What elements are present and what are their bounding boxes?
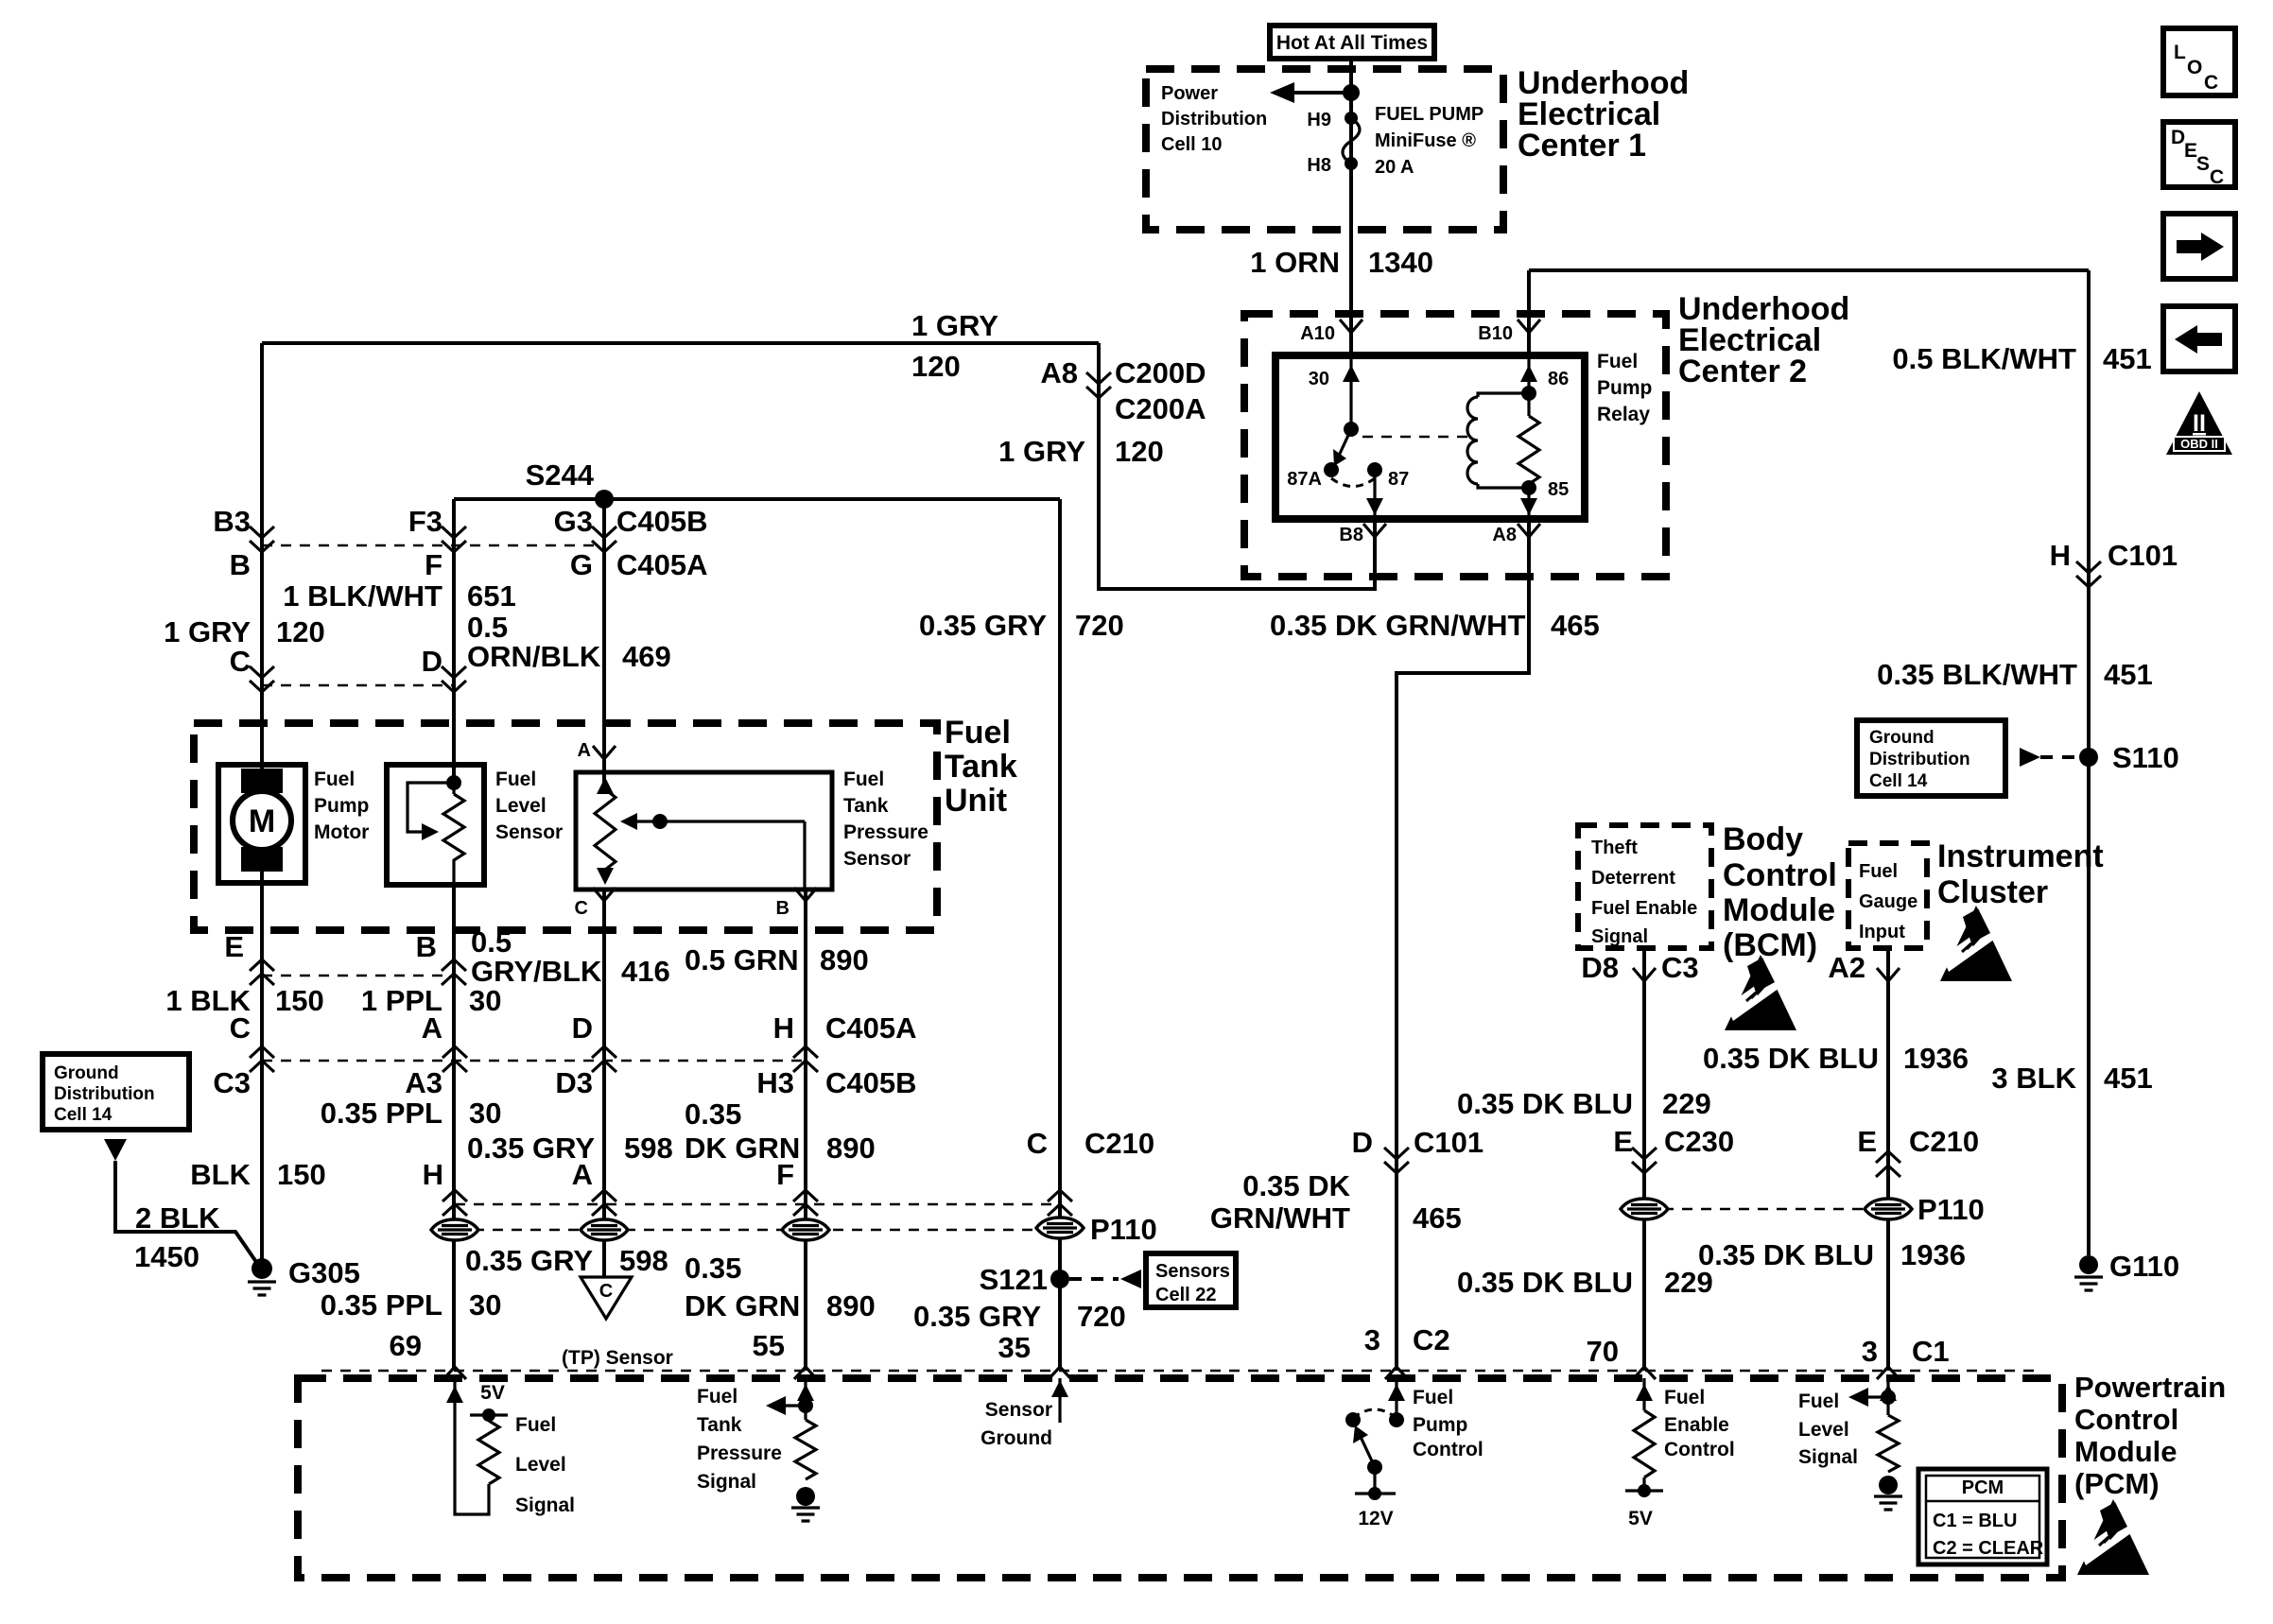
svg-text:Tank: Tank	[945, 749, 1017, 785]
svg-text:ORN/BLK: ORN/BLK	[467, 640, 601, 673]
svg-text:0.35 BLK/WHT: 0.35 BLK/WHT	[1877, 658, 2077, 691]
svg-text:0.35 DK BLU: 0.35 DK BLU	[1457, 1087, 1633, 1120]
svg-text:69: 69	[390, 1329, 422, 1362]
svg-text:H: H	[2050, 539, 2071, 572]
svg-text:G305: G305	[288, 1256, 360, 1289]
svg-text:Pressure: Pressure	[697, 1443, 782, 1464]
svg-text:L: L	[2174, 42, 2186, 63]
svg-text:Fuel: Fuel	[1859, 861, 1898, 882]
svg-text:C3: C3	[1661, 951, 1699, 984]
svg-text:A3: A3	[405, 1066, 442, 1099]
svg-text:5V: 5V	[480, 1382, 505, 1404]
svg-text:Powertrain: Powertrain	[2074, 1371, 2226, 1404]
svg-text:A: A	[572, 1158, 593, 1191]
svg-text:C1 = BLU: C1 = BLU	[1933, 1511, 2017, 1531]
svg-text:890: 890	[826, 1289, 876, 1322]
svg-text:0.35: 0.35	[685, 1252, 741, 1285]
svg-text:D: D	[2171, 127, 2185, 148]
svg-text:C: C	[230, 645, 251, 678]
svg-text:Hot At All Times: Hot At All Times	[1276, 32, 1428, 54]
svg-text:D: D	[422, 645, 442, 678]
svg-text:0.5: 0.5	[467, 611, 508, 644]
svg-text:Distribution: Distribution	[1869, 750, 1970, 769]
svg-text:720: 720	[1075, 609, 1124, 642]
svg-text:3: 3	[1862, 1335, 1878, 1368]
svg-text:C405A: C405A	[825, 1011, 917, 1045]
svg-text:FUEL PUMP: FUEL PUMP	[1375, 104, 1484, 125]
svg-text:120: 120	[276, 615, 325, 648]
svg-text:451: 451	[2104, 658, 2153, 691]
svg-text:Ground: Ground	[980, 1427, 1052, 1449]
svg-text:Input: Input	[1859, 922, 1905, 942]
svg-text:S110: S110	[2112, 741, 2179, 774]
svg-text:1 GRY: 1 GRY	[164, 615, 251, 648]
svg-text:Power: Power	[1161, 83, 1218, 104]
svg-text:0.35: 0.35	[685, 1097, 741, 1131]
svg-text:C101: C101	[1414, 1126, 1484, 1159]
svg-text:O: O	[2187, 57, 2202, 78]
svg-text:Theft: Theft	[1591, 838, 1638, 858]
svg-text:B8: B8	[1339, 525, 1363, 545]
svg-text:Sensor: Sensor	[843, 848, 911, 870]
svg-text:Pump: Pump	[1597, 377, 1652, 399]
svg-text:Pump: Pump	[314, 795, 369, 817]
svg-text:C: C	[575, 898, 588, 919]
svg-text:0.35 PPL: 0.35 PPL	[321, 1097, 442, 1130]
svg-text:0.35 DK BLU: 0.35 DK BLU	[1703, 1042, 1879, 1075]
svg-text:Tank: Tank	[697, 1414, 742, 1436]
svg-text:C210: C210	[1909, 1125, 1979, 1158]
svg-text:C: C	[599, 1281, 613, 1302]
svg-text:30: 30	[469, 1097, 501, 1130]
svg-text:Fuel: Fuel	[1664, 1387, 1705, 1408]
svg-text:E: E	[2184, 140, 2197, 162]
svg-text:598: 598	[619, 1244, 668, 1277]
svg-text:0.35 DK: 0.35 DK	[1242, 1169, 1350, 1202]
svg-text:Module: Module	[1723, 892, 1835, 928]
svg-text:Distribution: Distribution	[54, 1084, 155, 1104]
svg-text:150: 150	[275, 984, 324, 1017]
svg-text:C405B: C405B	[616, 505, 708, 538]
svg-text:C405B: C405B	[825, 1066, 917, 1099]
svg-text:MiniFuse ®: MiniFuse ®	[1375, 130, 1476, 151]
svg-text:Module: Module	[2074, 1435, 2178, 1468]
svg-text:55: 55	[753, 1329, 785, 1362]
svg-text:A: A	[422, 1011, 442, 1045]
svg-text:Fuel: Fuel	[1413, 1387, 1453, 1408]
svg-text:D: D	[1352, 1126, 1373, 1159]
svg-text:Cell 10: Cell 10	[1161, 134, 1222, 155]
svg-text:Signal: Signal	[697, 1471, 756, 1493]
svg-text:E: E	[224, 930, 244, 963]
svg-text:H: H	[773, 1011, 794, 1045]
svg-text:0.5 BLK/WHT: 0.5 BLK/WHT	[1892, 342, 2076, 375]
svg-text:C230: C230	[1664, 1125, 1734, 1158]
svg-text:Fuel Enable: Fuel Enable	[1591, 898, 1697, 919]
svg-text:Cell 14: Cell 14	[1869, 771, 1928, 791]
svg-text:H: H	[423, 1158, 443, 1191]
svg-text:D3: D3	[555, 1066, 593, 1099]
svg-text:86: 86	[1548, 369, 1569, 389]
svg-text:1936: 1936	[1900, 1238, 1966, 1271]
svg-text:451: 451	[2103, 342, 2152, 375]
svg-text:Instrument: Instrument	[1937, 838, 2104, 874]
svg-text:0.35 DK BLU: 0.35 DK BLU	[1698, 1238, 1874, 1271]
svg-text:3: 3	[1364, 1323, 1380, 1356]
svg-text:87A: 87A	[1287, 469, 1322, 490]
svg-text:Level: Level	[1798, 1419, 1849, 1441]
svg-text:C1: C1	[1912, 1335, 1950, 1368]
svg-text:0.35 GRY: 0.35 GRY	[465, 1244, 593, 1277]
svg-text:Sensors: Sensors	[1155, 1261, 1230, 1282]
svg-text:H9: H9	[1307, 110, 1331, 130]
svg-text:Control: Control	[2074, 1403, 2178, 1436]
svg-text:C101: C101	[2108, 539, 2178, 572]
svg-text:Body: Body	[1723, 821, 1803, 857]
svg-text:0.35 GRY: 0.35 GRY	[913, 1300, 1041, 1333]
svg-text:Level: Level	[515, 1454, 566, 1476]
svg-text:BLK: BLK	[190, 1158, 251, 1191]
svg-text:A2: A2	[1828, 951, 1865, 984]
svg-text:469: 469	[622, 640, 671, 673]
svg-text:416: 416	[621, 955, 670, 988]
svg-text:(TP) Sensor: (TP) Sensor	[562, 1347, 673, 1369]
svg-text:1340: 1340	[1368, 246, 1433, 279]
svg-text:C3: C3	[213, 1066, 251, 1099]
svg-text:120: 120	[1115, 435, 1164, 468]
svg-text:Gauge: Gauge	[1859, 891, 1917, 912]
svg-text:II: II	[2193, 410, 2206, 437]
svg-text:C: C	[2210, 166, 2224, 188]
svg-text:Center 1: Center 1	[1518, 128, 1646, 164]
svg-text:GRN/WHT: GRN/WHT	[1210, 1201, 1350, 1235]
svg-text:A: A	[578, 740, 591, 761]
svg-text:0.5: 0.5	[471, 925, 512, 959]
svg-text:GRY/BLK: GRY/BLK	[471, 955, 602, 988]
svg-text:30: 30	[469, 984, 501, 1017]
svg-text:465: 465	[1551, 609, 1600, 642]
svg-text:C: C	[1027, 1127, 1048, 1160]
svg-text:D8: D8	[1581, 951, 1619, 984]
svg-text:A8: A8	[1040, 356, 1078, 389]
svg-text:B: B	[230, 548, 251, 581]
svg-text:C: C	[230, 1011, 251, 1045]
svg-text:150: 150	[277, 1158, 326, 1191]
svg-text:Cluster: Cluster	[1937, 874, 2048, 910]
svg-text:H8: H8	[1307, 155, 1331, 176]
svg-text:S: S	[2196, 153, 2210, 175]
svg-text:Fuel: Fuel	[843, 769, 884, 790]
svg-text:35: 35	[998, 1331, 1031, 1364]
svg-text:Motor: Motor	[314, 821, 369, 843]
svg-text:87: 87	[1388, 469, 1409, 490]
svg-text:Signal: Signal	[1798, 1446, 1858, 1468]
svg-text:Fuel: Fuel	[697, 1386, 737, 1408]
svg-text:Level: Level	[495, 795, 547, 817]
svg-text:70: 70	[1587, 1335, 1619, 1368]
svg-text:651: 651	[467, 579, 516, 613]
svg-text:Fuel: Fuel	[515, 1414, 556, 1436]
svg-text:Control: Control	[1413, 1439, 1484, 1460]
svg-text:E: E	[1857, 1125, 1877, 1158]
svg-text:5V: 5V	[1628, 1508, 1653, 1529]
svg-text:S121: S121	[980, 1263, 1048, 1296]
svg-text:890: 890	[826, 1132, 876, 1165]
svg-text:20 A: 20 A	[1375, 157, 1414, 178]
svg-text:DK GRN: DK GRN	[685, 1289, 800, 1322]
svg-text:Signal: Signal	[1591, 926, 1648, 947]
svg-text:Ground: Ground	[1869, 728, 1935, 748]
svg-text:C2 = CLEAR: C2 = CLEAR	[1933, 1538, 2044, 1559]
svg-text:Fuel: Fuel	[1798, 1391, 1839, 1412]
svg-text:Cell 22: Cell 22	[1155, 1285, 1216, 1305]
svg-text:Fuel: Fuel	[945, 715, 1011, 751]
svg-text:229: 229	[1662, 1087, 1711, 1120]
svg-text:B3: B3	[213, 505, 251, 538]
svg-text:A8: A8	[1492, 525, 1517, 545]
svg-text:H3: H3	[756, 1066, 794, 1099]
svg-text:S244: S244	[526, 458, 595, 492]
svg-text:D: D	[572, 1011, 593, 1045]
svg-text:451: 451	[2104, 1062, 2153, 1095]
svg-text:G3: G3	[554, 505, 593, 538]
svg-text:P110: P110	[1090, 1213, 1157, 1246]
svg-text:Cell 14: Cell 14	[54, 1105, 113, 1125]
svg-text:598: 598	[624, 1132, 673, 1165]
svg-text:F: F	[776, 1158, 794, 1191]
svg-text:C210: C210	[1084, 1127, 1154, 1160]
svg-text:C200A: C200A	[1115, 392, 1206, 425]
svg-text:Center 2: Center 2	[1678, 354, 1807, 389]
svg-text:85: 85	[1548, 479, 1569, 500]
svg-text:Fuel: Fuel	[495, 769, 536, 790]
svg-text:0.35 DK BLU: 0.35 DK BLU	[1457, 1266, 1633, 1299]
svg-text:Sensor: Sensor	[985, 1399, 1052, 1421]
svg-text:0.35 GRY: 0.35 GRY	[919, 609, 1047, 642]
svg-text:F: F	[425, 548, 442, 581]
svg-text:1 GRY: 1 GRY	[911, 309, 998, 342]
svg-text:0.35 DK GRN/WHT: 0.35 DK GRN/WHT	[1270, 609, 1525, 642]
svg-text:Pump: Pump	[1413, 1414, 1467, 1436]
svg-text:Sensor: Sensor	[495, 821, 563, 843]
svg-text:Signal: Signal	[515, 1494, 575, 1516]
svg-text:C: C	[2204, 72, 2218, 94]
svg-text:1 BLK/WHT: 1 BLK/WHT	[283, 579, 442, 613]
svg-text:C200D: C200D	[1115, 356, 1206, 389]
svg-text:A10: A10	[1300, 323, 1335, 344]
svg-text:3 BLK: 3 BLK	[1991, 1062, 2076, 1095]
svg-text:OBD II: OBD II	[2180, 437, 2218, 451]
svg-text:1 GRY: 1 GRY	[998, 435, 1085, 468]
svg-text:G: G	[570, 548, 593, 581]
svg-text:30: 30	[1309, 369, 1329, 389]
svg-text:C405A: C405A	[616, 548, 708, 581]
svg-text:0.5 GRN: 0.5 GRN	[685, 943, 799, 976]
svg-text:G110: G110	[2109, 1250, 2179, 1283]
svg-text:890: 890	[820, 943, 869, 976]
svg-text:1936: 1936	[1903, 1042, 1969, 1075]
svg-text:C2: C2	[1413, 1323, 1450, 1356]
svg-text:465: 465	[1413, 1201, 1462, 1235]
svg-text:B10: B10	[1478, 323, 1513, 344]
svg-text:Tank: Tank	[843, 795, 889, 817]
svg-text:F3: F3	[408, 505, 442, 538]
svg-text:B: B	[416, 930, 437, 963]
svg-text:Fuel: Fuel	[1597, 351, 1638, 372]
svg-text:Deterrent: Deterrent	[1591, 868, 1675, 889]
svg-text:1450: 1450	[134, 1240, 200, 1273]
svg-text:229: 229	[1664, 1266, 1713, 1299]
svg-text:Unit: Unit	[945, 783, 1007, 819]
svg-text:30: 30	[469, 1288, 501, 1322]
svg-text:Relay: Relay	[1597, 404, 1650, 425]
svg-text:(BCM): (BCM)	[1723, 927, 1817, 963]
svg-text:120: 120	[911, 350, 961, 383]
svg-text:Pressure: Pressure	[843, 821, 928, 843]
svg-text:Ground: Ground	[54, 1063, 119, 1083]
svg-text:PCM: PCM	[1962, 1477, 2004, 1498]
svg-text:M: M	[249, 803, 275, 839]
svg-text:Fuel: Fuel	[314, 769, 355, 790]
svg-text:Distribution: Distribution	[1161, 109, 1267, 130]
svg-text:E: E	[1613, 1125, 1633, 1158]
svg-text:0.35 PPL: 0.35 PPL	[321, 1288, 442, 1322]
svg-text:12V: 12V	[1358, 1508, 1393, 1529]
svg-text:720: 720	[1077, 1300, 1126, 1333]
svg-text:Enable: Enable	[1664, 1414, 1729, 1436]
svg-text:Control: Control	[1723, 857, 1837, 893]
svg-text:2 BLK: 2 BLK	[135, 1201, 220, 1235]
svg-text:P110: P110	[1917, 1193, 1985, 1226]
svg-text:B: B	[776, 898, 789, 919]
svg-text:(PCM): (PCM)	[2074, 1467, 2160, 1500]
svg-text:Control: Control	[1664, 1439, 1735, 1460]
svg-text:1 ORN: 1 ORN	[1250, 246, 1340, 279]
